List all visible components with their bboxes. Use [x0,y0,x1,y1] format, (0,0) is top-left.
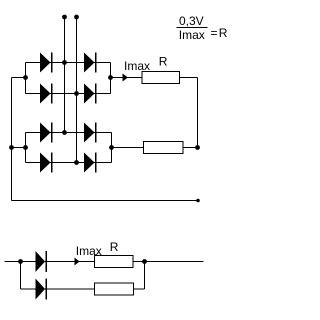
resistor R4 (bottom circuit lower) [95,283,134,295]
wire: group1 row2 horizontal [26,93,111,95]
svg-text:Imax: Imax [179,28,205,42]
svg-text:R: R [110,240,119,254]
svg-text:0,3V: 0,3V [179,14,204,28]
wire: right riser vertical [197,78,199,148]
wire: bottom rail horizontal [12,200,199,202]
resistor R3 (bottom circuit top) [95,256,134,268]
node: row2 / terminal2 junction [74,91,79,96]
wire: bottom circuit left drop [20,262,22,290]
wire: terminal 2 vertical drop [76,17,78,163]
wire: group1 left stub [12,77,26,79]
node: group2 left mid junction [23,145,28,150]
svg-text:R: R [159,55,168,69]
diode D6 (group2 row1 right) [84,123,97,143]
svg-text:=: = [211,26,218,40]
wire: group2 left bracket [25,133,27,163]
diode D5 (group2 row1 left) [40,123,53,143]
wire: group2 left stub [12,147,26,149]
diode D2 (group1 row1 right) [84,53,97,73]
diode D10 (bottom circuit lower branch) [36,279,48,300]
node: row3 / terminal1 junction [62,130,67,135]
wire: group2 right bracket [111,133,113,163]
diode D9 (bottom circuit top branch) [36,251,48,272]
terminal dot bottom rail end [196,199,200,203]
resistor R2 (middle bottom) [144,142,184,154]
current arrow Imax (bottom circuit) [75,258,80,266]
node: group2 right mid junction [109,145,114,150]
node: resistor outputs junction [195,145,200,150]
wire: R2 to junction [183,147,198,149]
wire: group1 right bracket [110,63,112,94]
terminal dot top-right [74,15,79,20]
svg-text:R: R [219,26,228,40]
wire: bottom circuit right riser [144,262,146,290]
diode D7 (group2 row2 left) [40,153,53,173]
node: bottom circuit right junction [142,259,147,264]
terminal dot top-left [62,15,67,20]
wire: bottom circuit lower branch [21,288,145,290]
node: bottom circuit left junction [18,259,23,264]
wire: left rail vertical [11,78,13,201]
current arrow Imax (middle circuit) [123,74,129,82]
wire: group1 left bracket [25,63,27,94]
diode D4 (group1 row2 right) [84,84,97,104]
wire: group1 output to resistor [111,77,143,79]
node: row1 / terminal1 junction [62,60,67,65]
wire: terminal 1 vertical drop [64,17,66,133]
wire: R1 to right riser [180,77,198,79]
resistor R1 (middle top) [142,72,180,84]
wire: group2 row1 horizontal [26,132,112,134]
wire: group1 row1 horizontal [26,62,111,64]
node: group1 left mid junction [23,75,28,80]
wire: group2 output to resistor [112,147,144,149]
diode D3 (group1 row2 left) [40,84,53,104]
formula fraction bar [177,27,208,29]
wire: group2 row2 horizontal [26,162,112,164]
node: left rail / group2 stub junction [9,145,14,150]
node: row4 / terminal2 junction [74,160,79,165]
node: group1 right mid junction [108,75,113,80]
diode D1 (group1 row1 left) [40,53,53,73]
diode D8 (group2 row2 right) [84,153,97,173]
svg-text:Imax: Imax [124,59,150,73]
wire: bottom circuit top branch [5,261,204,263]
